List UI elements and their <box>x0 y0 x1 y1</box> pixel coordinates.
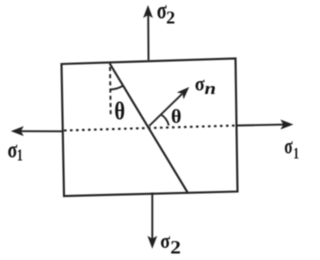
svg-text:σ: σ <box>160 230 170 254</box>
top sigma2 arrow shaft <box>147 14 149 60</box>
svg-text:1: 1 <box>17 147 23 166</box>
svg-text:σ: σ <box>7 136 17 163</box>
svg-text:σ: σ <box>284 135 293 160</box>
left sigma1 arrow shaft <box>20 130 63 132</box>
right sigma1 arrow shaft <box>237 124 285 127</box>
arc theta at center (between sigma_n and dotted line) <box>161 115 169 126</box>
sigma_n arrowhead <box>177 87 189 99</box>
diagonal inclined plane <box>110 64 188 193</box>
right sigma1 arrowhead <box>280 120 293 130</box>
dotted horizontal centerline <box>64 126 236 131</box>
svg-text:2: 2 <box>166 7 175 27</box>
sigma_n arrow shaft <box>149 94 182 126</box>
svg-text:2: 2 <box>170 238 181 258</box>
rectangle element body <box>62 59 238 197</box>
dashed vertical reference line <box>109 67 112 116</box>
top sigma2 arrowhead <box>143 5 153 18</box>
bottom sigma2 arrowhead <box>147 236 157 249</box>
svg-text:n: n <box>205 80 216 99</box>
arc theta at top (between dashed vertical and diagonal) <box>110 86 123 90</box>
svg-text:θ: θ <box>171 106 181 128</box>
svg-text:θ: θ <box>114 96 125 125</box>
svg-text:1: 1 <box>293 146 299 163</box>
left sigma1 arrowhead <box>11 126 24 136</box>
bottom sigma2 arrow shaft <box>151 193 153 240</box>
